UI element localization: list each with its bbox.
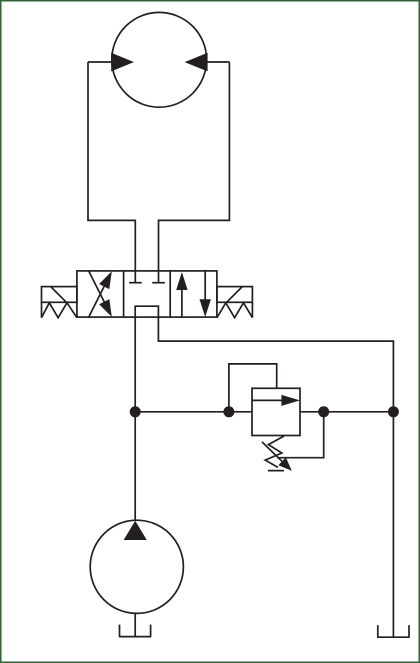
wire pilot line	[229, 364, 277, 412]
node junction dot tank line	[388, 406, 399, 417]
valve V1 divider right	[169, 271, 171, 317]
wire pump suction	[134, 613, 136, 636]
wire pressure line left segment	[135, 411, 252, 413]
relief valve RV1 spring	[265, 436, 284, 467]
solenoid S2 slash	[227, 287, 243, 303]
motor M1 right triangle	[185, 53, 208, 72]
node junction dot relief outlet	[318, 406, 329, 417]
relief valve RV1 adjustment base dash	[268, 470, 284, 472]
valve V1 right box down arrow	[204, 271, 206, 300]
solenoid S1 left box	[42, 287, 77, 303]
valve V1 envelope	[77, 271, 217, 317]
spring right	[217, 303, 253, 318]
valve V1 left box cross arrow down	[89, 271, 108, 309]
wire motor right stub	[206, 61, 229, 63]
wire right riser B	[159, 62, 230, 283]
spring left	[42, 303, 77, 318]
valve V1 left box cross arrow up	[89, 279, 108, 317]
motor M1 left triangle	[111, 53, 134, 72]
valve V1 divider left	[123, 271, 125, 317]
relief valve RV1 flow arrow	[252, 399, 284, 401]
motor M1 circle	[112, 12, 207, 107]
tank T2 right	[377, 625, 379, 637]
pump P1 triangle	[124, 521, 147, 540]
solenoid S1 left edge extension	[41, 302, 43, 317]
solenoid S2 right box	[217, 287, 253, 303]
tank T1 left	[119, 625, 121, 637]
pump P1 circle	[90, 520, 183, 613]
wire left riser A	[88, 62, 135, 283]
node junction dot pilot	[223, 406, 234, 417]
wire P line valve to pump	[134, 317, 136, 520]
valve V1 center bypass bridge	[135, 306, 158, 317]
valve V1 right box up arrow	[181, 288, 183, 317]
valve V1 center blocked port B T-bar	[152, 282, 165, 284]
solenoid S1 slash	[51, 287, 67, 303]
wire relief drain	[278, 412, 324, 458]
wire motor left stub	[88, 61, 113, 63]
valve V1 center blocked port A T-bar	[129, 282, 142, 284]
relief valve RV1 adjustment arrow	[262, 442, 284, 463]
solenoid S2 right edge extension	[251, 302, 253, 317]
wire T line valve to tank	[158, 317, 393, 637]
node junction dot P	[130, 406, 141, 417]
relief valve RV1 body	[252, 388, 300, 435]
wire pressure line right segment	[300, 411, 393, 413]
